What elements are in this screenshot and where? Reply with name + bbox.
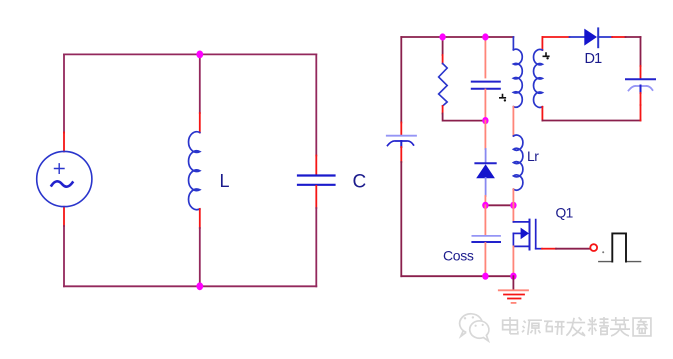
junction dot source bottom <box>510 273 516 280</box>
diode D1 cathode lead <box>598 36 612 38</box>
char yan <box>544 321 564 335</box>
secondary top wire red segment <box>542 36 569 38</box>
secondary bottom wire <box>542 120 640 122</box>
clamp diode lead periwinkle upper <box>485 149 487 163</box>
svg-text:Lr: Lr <box>527 148 539 164</box>
capacitor C bottom plate <box>298 184 335 186</box>
wire top bus <box>401 36 513 38</box>
top wire red segment after D1 <box>612 36 625 38</box>
resistor branch: maroon stub from top bus <box>442 37 444 55</box>
char dian <box>503 317 518 334</box>
MOSFET source stub salmon <box>512 246 514 276</box>
junction dots top bus <box>439 33 445 40</box>
MOSFET Q1 arrow <box>521 228 529 240</box>
transformer secondary winding <box>534 49 543 107</box>
capacitor Cclamp top plate <box>472 81 500 83</box>
MOSFET Q1 gate plate <box>535 220 537 249</box>
primary polarity mark <box>500 95 506 98</box>
wire right branch lower <box>315 208 317 286</box>
AC source V1 circle <box>37 151 92 206</box>
tiny dot artifact <box>602 251 604 253</box>
wire middle red stub below L <box>199 209 201 228</box>
inductor L coil <box>189 132 200 210</box>
Coss branch salmon stub lower <box>484 243 486 276</box>
char yuan <box>522 320 542 335</box>
pulse waveform <box>599 261 641 263</box>
Coss branch salmon stub upper <box>484 205 486 235</box>
red stub below output cap <box>640 93 642 105</box>
resistor red stub top <box>442 55 444 64</box>
MOSFET Q1 channel bar <box>529 220 531 250</box>
top wire maroon to right corner <box>626 36 641 38</box>
gate wire red <box>542 248 556 250</box>
wire left vertical lower <box>63 226 65 286</box>
watermark chinese text 电源研发精英圈 (drawn strokes) <box>503 317 651 336</box>
capacitor C top plate <box>298 174 335 176</box>
capacitor Cin top plate <box>387 135 416 137</box>
junction dot bottom <box>196 282 203 290</box>
salmon link primary to Lr <box>512 107 514 136</box>
svg-text:Coss: Coss <box>443 248 474 264</box>
ground bar 1 <box>499 289 528 291</box>
diode D1 triangle (pointing right) <box>584 29 597 46</box>
capacitor Cin center stub <box>400 141 402 147</box>
transformer primary top stub <box>512 37 514 50</box>
wire right branch upper <box>315 54 317 155</box>
clamp diode triangle (pointing up) <box>476 164 495 178</box>
wire left branch lower <box>400 162 402 276</box>
red stub below input cap <box>400 147 402 162</box>
wire middle branch upper <box>199 54 201 113</box>
char jing <box>588 317 610 335</box>
salmon stub Lr to drain node <box>512 189 514 205</box>
wire middle branch lower <box>199 228 201 286</box>
secondary bottom red stub <box>541 107 543 121</box>
char ying <box>610 317 630 336</box>
capacitor Cclamp bottom plate <box>472 88 500 90</box>
AC source plus sign <box>55 164 65 174</box>
transformer primary winding <box>513 49 522 107</box>
MOSFET Q1 body stub with arrow <box>513 232 521 234</box>
wire bottom bus <box>401 275 513 277</box>
capacitor Cout center stub <box>640 86 642 94</box>
svg-text:Q1: Q1 <box>556 206 573 221</box>
wire right red stub below C <box>315 186 317 208</box>
diode D1 anode lead <box>570 36 585 38</box>
wire middle red stub above L <box>199 113 201 133</box>
wire right red stub above C <box>315 156 317 175</box>
wire top horizontal <box>64 53 316 55</box>
svg-text:C: C <box>353 172 367 193</box>
wechat big bubble eyes <box>464 317 466 319</box>
clamp cap branch: salmon stub from top bus <box>484 37 486 78</box>
char fa <box>566 317 585 336</box>
MOSFET Q1 source horizontal <box>513 245 529 247</box>
wire resistor bottom corner to junction <box>443 114 486 121</box>
wire bottom horizontal <box>64 285 316 287</box>
MOSFET Q1 body-source vertical <box>512 233 514 246</box>
MOSFET Q1 drain horizontal <box>513 221 529 223</box>
junction dot resistor/cap bottom <box>482 117 488 124</box>
junction dot top <box>196 51 203 59</box>
wire node to drain node <box>485 204 513 206</box>
svg-text:D1: D1 <box>585 51 603 67</box>
ground bar 2 <box>504 294 524 296</box>
wechat big bubble <box>460 314 483 337</box>
red stub above input cap <box>400 123 402 136</box>
MOSFET Q1 gate foot <box>536 248 542 250</box>
secondary loop right red stub lower <box>640 105 642 121</box>
clamp diode branch: salmon stub <box>484 121 486 149</box>
secondary polarity mark <box>543 53 549 56</box>
gate terminal open circle <box>590 244 597 251</box>
resistor red stub bottom <box>442 106 444 114</box>
wechat small bubble eyes <box>475 325 477 327</box>
salmon stub to node <box>484 196 486 205</box>
output branch maroon upper <box>640 37 642 66</box>
gate wire maroon <box>556 248 590 250</box>
AC source sine tilde <box>52 181 73 186</box>
ground bar 3 <box>508 298 521 300</box>
capacitor Cout top plate <box>626 78 655 80</box>
wire left vertical red stub below source <box>63 207 65 226</box>
transformer secondary top stub red <box>541 37 543 50</box>
capacitor Cout curved plate <box>629 86 653 91</box>
diode D1 cathode bar <box>597 28 599 47</box>
resistor R zigzag <box>439 64 448 107</box>
capacitor Coss top plate <box>472 235 500 237</box>
capacitor Coss bottom plate <box>472 241 500 243</box>
capacitor Cin curved plate <box>388 141 414 146</box>
wire left branch upper <box>400 37 402 123</box>
wire left vertical red stub above source <box>63 133 65 152</box>
wire left vertical upper <box>63 54 65 132</box>
junction dot Coss bottom <box>482 273 488 280</box>
ground stub <box>512 276 514 289</box>
red stub above output cap <box>640 66 642 79</box>
inductor Lr coil <box>513 135 522 190</box>
junction dot clamp node <box>482 202 488 209</box>
char quan <box>633 318 651 336</box>
clamp diode lead periwinkle lower <box>485 178 487 196</box>
wechat small bubble <box>470 321 489 341</box>
clamp diode cathode bar <box>475 162 495 164</box>
salmon stub below clamp cap <box>484 90 486 121</box>
MOSFET Q1 drain stub salmon <box>512 205 514 222</box>
svg-text:L: L <box>220 171 230 191</box>
junction dot drain node <box>510 202 516 209</box>
ground bar 4 <box>512 302 516 304</box>
